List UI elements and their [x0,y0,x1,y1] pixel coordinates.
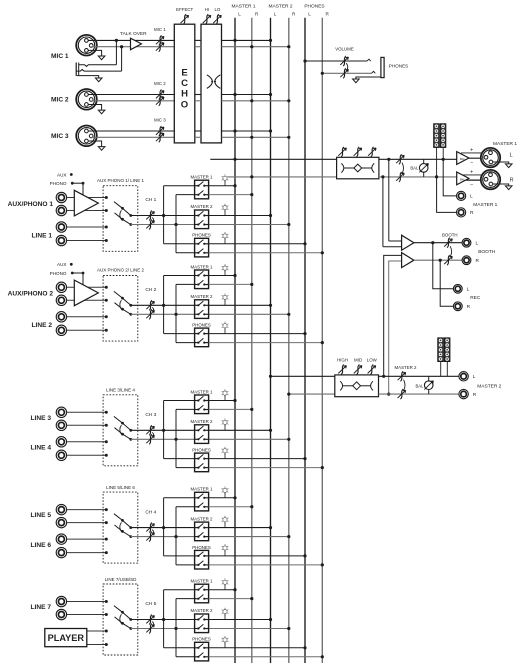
connector RCA CH2 input 2 [56,295,66,305]
block PLAYER [45,629,87,647]
node selector contact CH5-3 [105,630,108,633]
svg-text:LINE 3: LINE 3 [30,415,51,422]
junction CH3 M1L [233,399,236,402]
wire CH5 L risers [164,590,195,648]
wire CH2 PhL out [209,333,305,335]
svg-text:REC: REC [470,295,481,301]
svg-text:L: L [473,374,476,380]
switch CH1 MASTER 1 assign [191,175,214,199]
junction strip1 R [435,175,438,178]
wire CH1 PhR out [209,252,323,254]
svg-text:MASTER 2: MASTER 2 [269,4,293,10]
wire CH3 R line [131,438,195,440]
junction MIC3R M1R [250,136,253,139]
junction MIC3L M1L [233,129,236,132]
junction phones L [303,59,306,62]
svg-text:PLAYER: PLAYER [48,633,85,643]
switch CH5 MASTER 1 assign [191,579,214,603]
wire CH4 L risers [164,498,195,556]
svg-text:MASTER 1: MASTER 1 [191,264,214,269]
wire master1 L out [379,158,457,160]
node selector contact CH5-4 [105,643,108,646]
svg-text:E: E [181,68,187,79]
ground XLR master1 R [493,184,509,186]
junction CH1 M1L [233,184,236,187]
wire MIC1 L from XLR pin1 [88,39,174,41]
svg-text:MASTER 1: MASTER 1 [232,4,256,10]
junction MIC1 ring to R [120,45,123,48]
svg-text:LOW: LOW [367,357,378,362]
junction CH1 R M2R [287,223,290,226]
svg-text:LO: LO [214,7,220,12]
switch CH2 PHONES assign [192,323,211,347]
wire rec R [440,260,453,306]
wire MIC1 R echo-tone stub [195,46,201,48]
ground MIC3 XLR pin3 [88,141,102,147]
wire booth tap M1R [382,177,384,247]
switch selector CH2 R [115,303,133,316]
junction MIC3L M2L [269,129,272,132]
junction rec L [431,241,434,244]
wire strip1 left stem [436,148,438,177]
svg-text:R: R [476,258,480,264]
connector RCA CH3 input 1 [56,407,66,417]
lamp CH4 master2 [222,516,229,528]
wire CH4 input 1 [67,509,107,511]
wire MIC1 jack tip riser [115,40,117,64]
node selector contact CH4-3 [105,538,108,541]
wire booth amp1 inputs [389,240,402,242]
wire CH5 M1L out [209,589,235,591]
switch selector CH3 L [114,416,132,431]
wire CH5 PhR out [209,656,323,658]
ground XLR master1 L [493,162,509,164]
node AUX select CH1 [57,172,73,177]
wire CH2 input 2 [67,299,107,301]
junction booth tap M1R [381,175,384,178]
connector RCA BOOTH R [462,256,479,265]
wire CH3 PhL out [209,458,305,460]
switch selector CH2 L [114,291,132,306]
potentiometer master1 EQ low [371,147,374,157]
wire MIC1 R to master buses [222,46,289,48]
connector RCA CH4 input 4 [56,547,66,557]
wire CH2 R line [131,313,195,315]
wire CH3 input 1 [67,411,107,413]
junction CH2 R feed [174,313,177,316]
junction CH3 R feed [174,438,177,441]
switch CH2 MASTER 2 assign [191,294,214,318]
potentiometer LO [213,7,221,24]
lamp CH3 phones [222,447,229,459]
potentiometer CH 3 fader (dual) [145,412,156,444]
wire MIC3 R from XLR pin2 [91,136,174,138]
wire CH5 M1R out [209,598,252,600]
switch CH1 MASTER 2 assign [191,204,214,228]
connector RCA REC L [453,284,469,293]
wire master1 L feed [210,158,336,160]
junction CH5 PhR [321,655,324,658]
wire CH1 input 2 [67,210,107,212]
wire CH1 PhL out [209,243,305,245]
junction CH3 L feed [162,429,165,432]
wire master2 L feed [271,375,335,377]
connector RCA CH4 input 2 [56,517,66,527]
svg-text:H: H [181,89,188,100]
svg-text:CH 1: CH 1 [145,197,156,203]
connector strip master1 [434,124,440,148]
wire CH3 PhR out [209,467,323,469]
junction MIC3R M2R [287,136,290,139]
potentiometer MASTER 2 level (dual) [395,365,418,399]
op-amp booth L [402,235,414,250]
block master1 EQ [337,157,379,179]
wire MIC2 L to master buses [222,94,271,96]
junction CH5 M1R [250,597,253,600]
potentiometer master1 EQ mid [356,147,359,157]
node selector contact CH2-3 [105,315,108,318]
connector strip master2 [438,338,444,362]
svg-text:MID: MID [354,357,362,362]
wire MIC3 R echo-tone stub [195,136,201,138]
svg-text:CH 5: CH 5 [145,601,156,607]
svg-text:PHONES: PHONES [192,448,211,453]
wire CH1 L risers [164,186,195,244]
switch selector CH4 R [115,525,133,538]
wire CH5 R line [131,628,195,630]
wire PLAYER out 1 [87,630,107,632]
node selector contact CH1-2 [105,209,108,212]
wire CH1 input 4 [67,240,107,242]
block master2 EQ [335,375,379,397]
lamp CH2 phones [222,322,229,334]
junction CH2 R M2R [287,313,290,316]
junction CH5 L M2L [269,618,272,621]
potentiometer CH 5 fader (dual) [145,601,156,633]
wire booth tap M1L [388,159,390,241]
svg-text:PHONO: PHONO [50,271,67,276]
ground MIC1 XLR pin3 [88,50,102,56]
svg-text:HIGH: HIGH [337,357,348,362]
junction CH4 L feed [162,526,165,529]
junction CH1 PhL [303,242,306,245]
wire CH1 R line [131,224,195,226]
potentiometer MIC 2 level (dual) [154,81,166,106]
node selector contact CH5-1 [105,600,108,603]
switch CH2 MASTER 1 assign [191,264,214,288]
node selector contact CH2-2 [105,299,108,302]
wire CH4 PhR out [209,564,323,566]
wire rec L [433,243,454,289]
svg-text:LINE 5: LINE 5 [30,512,51,519]
wire selector gang CH1 [120,210,122,219]
junction master2 L feed [269,375,272,378]
junction CH4 R M2R [287,535,290,538]
ground MIC2 XLR pin3 [88,105,102,111]
lamp CH3 master1 [222,389,229,400]
switch selector CH5 R [115,617,133,630]
svg-text:EFFECT: EFFECT [176,7,193,12]
svg-text:R: R [467,304,471,310]
potentiometer CH 1 fader (dual) [145,197,156,229]
ground phones sleeve [356,77,381,79]
wire CH1 L line [131,215,195,217]
svg-text:LINE 3/LINE 4: LINE 3/LINE 4 [106,388,135,393]
svg-text:MASTER 1: MASTER 1 [473,202,497,208]
switch selector CH4 L [114,514,132,529]
svg-text:MIC 1: MIC 1 [51,53,69,60]
wire CH2 L line [131,304,195,306]
svg-text:MASTER 2: MASTER 2 [191,294,214,299]
svg-text:MASTER 1: MASTER 1 [493,141,517,147]
junction CH5 M1L [233,588,236,591]
wire master2 L out [379,375,459,377]
junction CH3 PhR [321,466,324,469]
wire selector gang CH3 [120,425,122,434]
wire CH1 input 3 [67,226,107,228]
junction master1 R feed [250,175,253,178]
lamp CH5 master2 [222,608,229,620]
wire master2 R out [379,393,459,395]
lamp CH5 master1 [222,578,229,589]
svg-text:LINE 7/USB/SD: LINE 7/USB/SD [105,577,138,582]
switch selector CH1 R [115,213,133,226]
connector RCA MASTER2 R [459,389,477,398]
wire CH1 R risers [176,195,195,253]
svg-text:LINE 7: LINE 7 [30,604,51,611]
wire bus PhR [321,18,323,663]
svg-text:+: + [470,170,473,176]
svg-text:L: L [308,12,311,17]
svg-text:VOLUME: VOLUME [335,47,354,52]
wire CH5 input 1 [67,601,107,603]
node selector contact CH1-4 [105,239,108,242]
wire CH2 M1R out [209,283,252,285]
connector RCA MASTER2 L [459,372,476,381]
wire master2 R feed [289,393,335,395]
junction phones R [321,72,324,75]
block MIC tone (HI/LO) [201,24,222,143]
svg-text:MIC 3: MIC 3 [51,133,69,140]
svg-text:AUX/PHONO 1: AUX/PHONO 1 [8,201,54,208]
junction MIC1L M1L [233,39,236,42]
svg-text:L: L [467,287,470,293]
svg-text:MASTER 2: MASTER 2 [395,365,418,370]
wire CH4 M1L out [209,497,235,499]
lamp CH1 master2 [222,204,229,216]
svg-text:CH 4: CH 4 [145,509,156,515]
switch CH3 MASTER 2 assign [191,419,214,443]
node selector contact CH2-1 [105,286,108,289]
junction booth tap M1L [387,158,390,161]
potentiometer BOOTH level (dual) [442,233,458,266]
wire CH2 input 1 [67,286,107,288]
svg-text:PHONES: PHONES [192,545,211,550]
svg-text:MASTER 2: MASTER 2 [477,384,501,390]
wire CH2 input 4 [67,329,107,331]
wire bus M2R [288,18,290,663]
wire CH4 M1R out [209,506,252,508]
junction CH3 M1R [250,408,253,411]
svg-text:AUX: AUX [57,172,66,177]
junction rec R [439,259,442,262]
potentiometer MIC 3 level (dual) [154,118,166,143]
op-amp master1 R balanced driver [457,170,491,189]
junction MIC2L M1L [233,93,236,96]
svg-text:LINE 1: LINE 1 [31,232,52,239]
junction CH2 L M2L [269,304,272,307]
svg-text:BAL: BAL [460,157,466,161]
svg-text:AUX PHONO 2/ LINE 2: AUX PHONO 2/ LINE 2 [97,268,145,273]
wire CH3 L line [131,429,195,431]
connector XLR MASTER1 L [481,141,518,168]
svg-text:L: L [274,12,277,17]
switch CH3 PHONES assign [192,448,211,472]
wire MIC3 R to master buses [222,136,289,138]
wire CH2 input 3 [67,316,107,318]
junction MIC1 tip to L [115,39,118,42]
svg-text:MASTER 1: MASTER 1 [191,175,214,180]
junction CH4 L M2L [269,526,272,529]
svg-text:HI: HI [205,7,209,12]
junction CH5 L feed [162,618,165,621]
wire master1 L to RCA [443,159,456,196]
wire CH1 M1R out [209,194,252,196]
wire CH2 L risers [164,276,195,334]
wire CH5 input 2 [67,614,107,616]
node selector contact CH1-3 [105,226,108,229]
switch CH3 MASTER 1 assign [191,389,214,413]
potentiometer EFFECT [176,7,193,24]
svg-text:L: L [238,12,241,17]
potentiometer MIC 1 level (dual) [154,27,166,52]
node selector contact CH4-2 [105,521,108,524]
junction CH2 M1R [250,283,253,286]
connector XLR MIC 3 input [76,126,97,147]
lamp CH5 phones [222,636,229,648]
junction CH3 L M2L [269,429,272,432]
wire CH5 R risers [176,599,195,657]
switch CH4 PHONES assign [192,545,211,569]
connector PHONES jack [367,57,408,77]
wire CH5 PhL out [209,647,305,649]
wire strip2 left stem [440,362,442,377]
wire bus M2L [270,18,272,663]
wire MIC3 L to master buses [222,130,271,132]
wire CH4 input 4 [67,552,107,554]
connector MIC1 phone jack (TRS) [76,63,121,77]
potentiometer CH 2 fader (dual) [145,287,156,319]
node PHONO select CH2 [50,271,85,287]
wire CH4 L line [131,527,195,529]
connector XLR MASTER1 R [481,170,514,189]
junction CH1 L M2L [269,214,272,217]
junction CH5 R feed [174,627,177,630]
potentiometer VOLUME (dual) [335,47,354,79]
svg-text:BAL: BAL [460,177,466,181]
junction booth tap M2R [387,393,390,396]
wire selector gang CH2 [120,300,122,309]
potentiometer BAL master2 [415,376,433,394]
wire strip1 right stem [442,148,444,160]
connector RCA MASTER1 L [457,191,474,200]
wire MIC1 jack ring riser [121,47,123,71]
connector RCA REC R [453,302,470,311]
svg-text:MIC 2: MIC 2 [51,96,69,103]
wire CH2 M1L out [209,275,235,277]
junction MIC1R M1R [250,45,253,48]
svg-text:BAL: BAL [415,384,424,389]
connector XLR MIC 1 input [76,35,97,56]
potentiometer master1 EQ high [341,147,344,157]
wire booth R out [414,259,462,261]
svg-text:MIC 3: MIC 3 [154,118,166,123]
potentiometer HIGH [337,357,348,374]
wire CH4 input 2 [67,522,107,524]
svg-text:BAL: BAL [410,166,419,171]
wire selector gang CH4 [120,522,122,531]
wire MIC3 L echo-tone stub [195,130,201,132]
wire master1 R to RCA [437,177,457,213]
wire strip2 right stem [446,362,448,377]
node selector contact CH3-4 [105,454,108,457]
svg-text:AUX PHONO 1/ LINE 1: AUX PHONO 1/ LINE 1 [97,178,145,183]
svg-text:AUX: AUX [57,262,66,267]
node selector contact CH3-2 [105,424,108,427]
switch selector CH1 L [114,202,132,217]
wire booth amp2 inputs [384,255,402,376]
junction master2 R feed [287,393,290,396]
svg-text:LINE 4: LINE 4 [30,445,51,452]
block input selector CH1 [97,178,145,251]
connector RCA CH1 input 1 [56,192,66,202]
svg-text:−: − [470,161,473,167]
switch CH5 PHONES assign [192,637,211,661]
wire CH3 input 2 [67,424,107,426]
wire MIC2 L from XLR pin1 [88,94,174,96]
potentiometer BAL master1 [410,159,428,177]
junction CH1 PhR [321,251,324,254]
svg-text:MASTER 1: MASTER 1 [191,579,214,584]
junction CH2 L feed [162,304,165,307]
lamp CH3 master2 [222,419,229,431]
wire selector gang CH5 [120,614,122,623]
svg-text:R: R [473,392,477,398]
switch selector CH5 L [114,606,132,621]
wire MIC2 R echo-tone stub [195,100,201,102]
junction CH5 PhL [303,646,306,649]
switch CH4 MASTER 2 assign [191,516,214,540]
connector RCA MASTER1 R [457,208,475,217]
wire MIC2 L echo-tone stub [195,94,201,96]
svg-text:MIC 2: MIC 2 [154,81,166,86]
switch CH1 PHONES assign [192,233,211,257]
potentiometer CH 4 fader (dual) [145,509,156,541]
connector RCA CH3 input 4 [56,450,66,460]
lamp CH4 master1 [222,487,229,498]
lamp CH4 phones [222,544,229,556]
svg-text:O: O [181,100,188,111]
junction CH4 R feed [174,535,177,538]
op-amp phono preamp CH1 [74,190,98,216]
connector RCA CH1 input 4 [56,235,66,245]
junction CH2 PhR [321,341,324,344]
connector RCA CH5 input 2 [56,609,66,619]
junction MIC1L M2L [269,39,272,42]
connector RCA CH3 input 2 [56,420,66,430]
svg-text:MASTER 2: MASTER 2 [191,204,214,209]
op-amp booth R [402,253,414,268]
